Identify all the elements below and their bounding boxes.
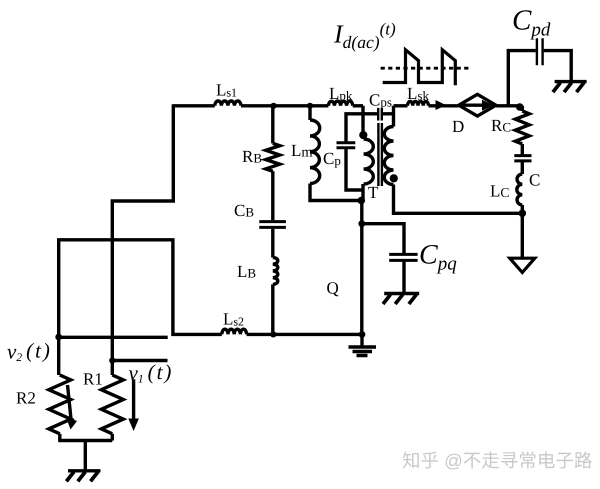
wire Ls2 to Q-node	[247, 333, 362, 336]
node v2	[55, 334, 62, 341]
node v1 junction	[109, 357, 115, 363]
ground chassis top-right	[555, 80, 587, 83]
inductor Ls1	[215, 101, 241, 106]
wire Lsk to diamond	[429, 104, 459, 107]
svg-text:R1: R1	[83, 370, 103, 389]
svg-text:D: D	[452, 117, 464, 136]
svg-text:Lpk: Lpk	[329, 84, 353, 103]
wire Q vertical	[360, 201, 363, 335]
inductor Ls2	[222, 329, 247, 334]
wire Lm top	[308, 106, 311, 120]
inductor Lsk	[408, 101, 429, 105]
wire secondary top	[392, 106, 395, 127]
arrow current direction	[436, 100, 447, 110]
waveform dashed average line	[381, 67, 471, 70]
resistor R1	[101, 375, 123, 434]
wire RB to CB	[271, 171, 274, 220]
wire R2 top	[57, 337, 60, 375]
dot primary phase	[359, 131, 367, 139]
wire C to Lc	[521, 161, 524, 174]
svg-text:C: C	[529, 171, 540, 190]
wire Lm bottom	[310, 184, 361, 201]
wire Cp bottom	[346, 148, 363, 190]
wire diamond to Rc corner	[496, 104, 521, 107]
node output corner	[516, 103, 524, 111]
wire ground stem bottom-left	[84, 441, 87, 470]
svg-text:Cp: Cp	[323, 149, 341, 168]
wire R1 bottom	[111, 434, 114, 441]
wire left loop from rail down to R1	[112, 104, 173, 375]
wire secondary bottom loop	[394, 185, 523, 214]
node Q ground junction	[359, 331, 366, 338]
svg-text:Cps: Cps	[369, 91, 392, 110]
wire LB bottom	[271, 284, 274, 334]
arrow inside diamond	[462, 103, 484, 106]
wire rail Ls1 to Lpk	[241, 104, 328, 107]
wire R2 bottom	[58, 434, 61, 441]
svg-text:Lsk: Lsk	[407, 84, 429, 103]
ground chassis Cpq	[384, 292, 419, 295]
svg-text:CB: CB	[234, 201, 254, 220]
wire primary top	[361, 106, 364, 139]
wire Rc to C	[521, 144, 524, 155]
wire Cpq bottom	[402, 260, 405, 292]
svg-text:T: T	[368, 183, 379, 202]
wire top rail left segment	[173, 104, 215, 107]
node junction Lm-rail	[307, 103, 313, 109]
capacitor Cps	[378, 108, 382, 121]
ground chassis bottom-left	[68, 469, 101, 472]
wire Cps left	[362, 112, 378, 115]
wire bottom rail R2-R1	[58, 439, 112, 442]
svg-text:RC: RC	[491, 116, 511, 135]
svg-text:v2(t): v2(t)	[7, 339, 52, 364]
svg-text:R2: R2	[16, 389, 36, 408]
inductor LB	[273, 257, 278, 284]
node transformer bottom junction	[358, 197, 366, 205]
svg-text:知乎 @不走寻常电子路: 知乎 @不走寻常电子路	[402, 450, 592, 471]
svg-text:LC: LC	[490, 182, 509, 201]
wire rail secondary to Lsk	[394, 104, 408, 107]
wire ground stem Q	[360, 334, 363, 345]
wire Cpd right vertical	[544, 51, 572, 81]
wire primary bottom	[361, 184, 364, 201]
wire v2 loop up-right-down to Ls2 rail	[59, 240, 222, 337]
wire v1 stub	[112, 359, 167, 362]
wire Rc top	[521, 106, 524, 111]
resistor Rc	[515, 111, 529, 144]
wire Cpd left vertical	[508, 51, 536, 106]
wire to triangle ground	[521, 213, 524, 258]
resistor R2	[49, 375, 71, 434]
capacitor CB	[259, 222, 286, 228]
wire CB to LB	[271, 229, 274, 258]
wire v2 stub	[59, 336, 168, 339]
node junction RB-rail	[271, 103, 277, 109]
capacitor Cp	[337, 143, 356, 148]
wire to Cpq	[362, 224, 404, 253]
capacitor C	[514, 156, 531, 161]
wire rail Lpk to primary top	[353, 104, 363, 107]
waveform diode current	[383, 50, 456, 85]
inductor Lc	[517, 174, 522, 205]
node LB-rail junction	[270, 331, 276, 337]
wire Cp top	[346, 114, 363, 143]
svg-text:RB: RB	[242, 147, 262, 166]
capacitor Cpq	[389, 254, 417, 260]
node Cpq junction	[358, 220, 365, 227]
wire Cps right	[383, 112, 394, 115]
resistor RB	[266, 143, 280, 171]
svg-text:Q: Q	[327, 279, 339, 298]
wire RB top	[271, 106, 274, 144]
inductor Lm	[310, 120, 320, 184]
wire Lc bottom	[521, 205, 524, 213]
node Lc bottom junction	[519, 210, 527, 218]
arrow v2 through R2	[68, 385, 72, 419]
ground earth Q	[349, 347, 377, 356]
transformer core	[378, 123, 382, 186]
svg-text:Lm: Lm	[291, 141, 313, 161]
diode D diamond	[459, 94, 496, 116]
transformer primary winding	[364, 139, 374, 184]
inductor Lpk	[328, 101, 352, 106]
arrow v1	[132, 379, 135, 420]
ground triangle	[510, 258, 535, 272]
capacitor Cpd	[537, 38, 543, 65]
svg-text:LB: LB	[237, 262, 256, 281]
dot secondary phase	[390, 174, 398, 182]
transformer secondary winding	[384, 127, 393, 185]
